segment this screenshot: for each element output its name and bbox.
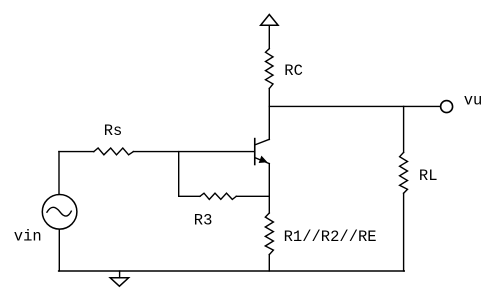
wire emitter rail <box>268 164 270 213</box>
wire collector rail <box>268 89 270 140</box>
resistor R1//R2//RE <box>265 213 273 255</box>
svg-text:R3: R3 <box>194 212 213 230</box>
resistor R3 <box>200 193 236 199</box>
svg-text:Rs: Rs <box>104 122 123 140</box>
ground <box>110 271 128 286</box>
transistor Q1 emitter arrow <box>259 157 266 163</box>
resistor RL <box>400 152 408 193</box>
svg-text:R1//R2//RE: R1//R2//RE <box>284 228 377 246</box>
wire left rail bottom <box>58 229 60 271</box>
transistor Q1 emitter <box>255 158 269 164</box>
terminal vu <box>441 101 453 113</box>
wire bottom rail <box>59 270 405 272</box>
resistor Rs <box>94 148 134 155</box>
wire top output <box>269 105 440 107</box>
wire RL top lead <box>403 106 405 152</box>
transistor Q1 collector <box>255 139 269 145</box>
svg-text:vu: vu <box>464 92 483 110</box>
svg-text:RL: RL <box>419 167 438 185</box>
resistor RC <box>266 49 274 89</box>
wire base rail left lead <box>59 151 94 153</box>
wire R3 drop <box>178 152 180 197</box>
svg-text:vin: vin <box>14 227 42 245</box>
wire R3 right lead <box>236 195 269 197</box>
wire R1 bottom lead <box>268 255 270 271</box>
wire base rail right lead <box>133 151 254 153</box>
wire left rail top <box>58 152 60 195</box>
transistor Q1 base bar <box>254 139 256 165</box>
power supply arrow VCC <box>261 15 279 26</box>
wire R3 left lead <box>179 195 200 197</box>
source vin <box>42 195 77 230</box>
wire VCC stem <box>268 25 270 48</box>
wire RL bottom lead <box>403 193 405 271</box>
svg-text:RC: RC <box>284 62 303 80</box>
